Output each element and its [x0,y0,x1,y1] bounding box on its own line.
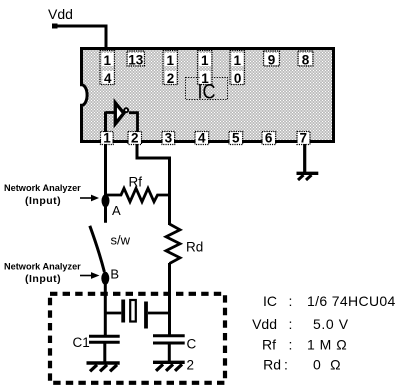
wire inverter output to pin 2 [129,113,138,132]
wire pin 2 jog to right branch [137,143,170,225]
svg-text:1: 1 [103,131,111,146]
resistor Rf [107,175,170,202]
inverter output bubble [124,108,128,112]
svg-text:5: 5 [232,131,240,146]
svg-text:0: 0 [234,71,242,86]
ground for pin 7 [297,173,319,180]
svg-text:Vdd: Vdd [252,316,277,332]
wire C2 to ground [168,343,171,362]
wire pin 7 to ground [303,143,306,172]
svg-text:3: 3 [165,131,173,146]
svg-text:1: 1 [166,53,174,68]
Network Analyzer (Input) label for node A [4,183,81,207]
svg-text:Rd: Rd [263,356,281,372]
svg-text:9: 9 [268,53,276,68]
svg-text:Vdd: Vdd [48,6,73,22]
pin 14 [100,51,115,87]
svg-text:1: 1 [104,53,112,68]
svg-text:1: 1 [234,53,242,68]
pin 12 [163,51,178,87]
arrow to node A [80,195,99,202]
node B [101,266,119,285]
capacitor C1 [73,335,120,350]
wire node B down to crystal/C1 [104,272,107,337]
svg-text:7: 7 [300,131,308,146]
pin 9 [264,51,280,68]
pin 10 [230,51,245,87]
svg-text:4: 4 [104,71,112,86]
switch s/w arm [90,226,131,272]
ground for C2 [153,362,185,371]
inverter gate U1A triangle [115,103,124,124]
pin 13 [127,51,145,68]
svg-text:A: A [112,203,121,218]
svg-text:0 Ω: 0 Ω [313,356,341,372]
svg-text::: : [289,316,293,332]
svg-text:2: 2 [167,71,175,86]
pin 11 [198,51,213,87]
svg-text:Rf: Rf [262,337,276,353]
svg-text:Rf: Rf [129,175,143,190]
svg-text:s/w: s/w [111,233,131,248]
svg-text::: : [289,337,293,353]
svg-text:C: C [187,337,197,352]
wire C1 to ground [103,343,106,363]
svg-text::: : [289,293,293,309]
svg-text:1: 1 [201,71,209,86]
pin 3 [162,131,175,146]
pin 8 [298,51,313,68]
svg-text:6: 6 [265,131,273,146]
svg-text:Network Analyzer: Network Analyzer [4,183,81,193]
Network Analyzer (Input) label for node B [4,262,81,285]
pin 2 [128,131,142,146]
svg-text:5.0 V: 5.0 V [313,316,349,332]
svg-text:1: 1 [201,53,209,68]
svg-text:C1: C1 [73,335,90,350]
pin 7 [297,131,310,146]
svg-text:2: 2 [131,131,139,146]
svg-text:(Input): (Input) [25,195,61,207]
parts table: IC row [263,293,396,309]
IC name label box [186,78,228,104]
svg-text:B: B [110,266,119,281]
crystal X1 [104,300,170,329]
wire pin 1 up to inverter input [106,111,115,114]
svg-text:Rd: Rd [186,240,203,255]
dashed enclosure box [50,294,225,383]
svg-text:2: 2 [187,358,195,373]
capacitor C2 [153,336,197,373]
wire pin 1 branch (left) [104,112,107,223]
pin 6 [262,131,276,146]
svg-text:13: 13 [128,53,144,68]
svg-text::: : [284,356,288,372]
svg-text:1/6 74HCU04: 1/6 74HCU04 [307,293,396,309]
svg-text:1 M Ω: 1 M Ω [307,337,347,353]
svg-text:Network Analyzer: Network Analyzer [4,262,81,272]
parts table: Rf row [262,337,347,353]
parts table: Vdd row [252,316,349,332]
node A [102,194,122,218]
pin 1 [101,131,114,146]
arrow to node B [80,272,100,279]
pin 4 [195,131,209,146]
svg-text:IC: IC [263,293,277,309]
pin 5 [229,131,243,146]
Vdd terminal [52,24,58,29]
ground for C1 [87,363,120,371]
parts table: Rd row [263,356,341,372]
svg-text:4: 4 [198,131,206,146]
svg-text:(Input): (Input) [25,273,61,285]
wire Vdd to pin 14 [55,26,107,49]
svg-text:8: 8 [302,53,310,68]
IC U1 body (1/6 74HCU04) [82,49,334,142]
wire Rd to crystal/C2 [168,263,171,336]
resistor Rd [166,224,203,264]
